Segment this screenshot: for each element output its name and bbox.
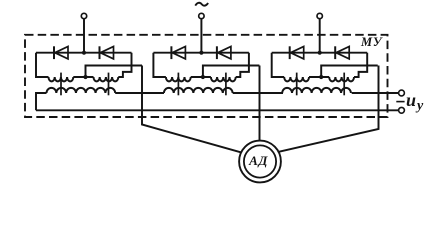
wire: control link 2-3 — [233, 92, 283, 94]
wire: left branch section 2 — [153, 53, 166, 77]
node: supply junction B — [199, 51, 203, 55]
diode VD6 — [335, 46, 349, 59]
node: center tap section 2 — [201, 75, 205, 79]
core 2 — [108, 73, 110, 96]
working winding w5 — [284, 77, 309, 81]
terminal u_y negative — [399, 107, 405, 113]
node: center tap section 1 — [83, 75, 87, 79]
supply terminal A — [81, 13, 86, 18]
diode VD1 — [54, 46, 68, 59]
wire: diode rail section 2 — [153, 52, 249, 54]
diode VD4 — [217, 46, 231, 59]
motor AD outer circle — [239, 141, 281, 183]
node: center tap section 3 — [319, 75, 323, 79]
wire: output to motor phase A — [142, 66, 242, 153]
diode VD2 — [100, 46, 114, 59]
control winding wy2 — [164, 88, 233, 93]
wire: output link section 3 — [321, 66, 378, 78]
supply terminal C — [317, 13, 322, 18]
wire: output link section 1 — [86, 66, 143, 78]
AC supply tilde label — [195, 3, 208, 6]
wire: terminal B lead — [200, 19, 202, 53]
core 4 — [225, 73, 227, 96]
svg-text:АД: АД — [248, 153, 268, 168]
wire: control winding left leg — [36, 93, 47, 110]
core 6 — [343, 73, 345, 96]
diode VD5 — [290, 46, 304, 59]
wire: winding-to-diode link section 2 — [236, 53, 249, 77]
wire: winding-to-diode link section 1 — [118, 53, 131, 77]
core 5 — [296, 73, 298, 96]
core 3 — [177, 73, 179, 96]
wire: output link section 2 — [203, 66, 260, 78]
wire: control link 1-2 — [115, 92, 164, 94]
terminal u_y positive — [399, 90, 405, 96]
wire: terminal C lead — [319, 19, 321, 53]
working winding w4 — [211, 77, 236, 81]
working winding w6 — [329, 77, 354, 81]
wire: diode rail section 1 — [36, 52, 132, 54]
wire: winding center tap section 2 — [191, 76, 211, 78]
node: supply junction A — [82, 51, 86, 55]
working winding w1 — [49, 77, 74, 81]
wire: left branch section 3 — [272, 53, 285, 77]
wire: diode rail section 3 — [272, 52, 368, 54]
wire: winding-to-diode link section 3 — [354, 53, 367, 77]
control winding wy1 — [47, 88, 116, 93]
svg-text:МУ: МУ — [360, 35, 383, 49]
wire: winding center tap section 1 — [73, 76, 93, 78]
wire: output to motor phase C — [278, 66, 378, 152]
wire: terminal A lead — [83, 19, 85, 53]
diode VD3 — [171, 46, 185, 59]
wire: winding center tap section 3 — [309, 76, 329, 78]
motor AD inner circle — [244, 145, 276, 177]
supply terminal B — [199, 13, 204, 18]
wire: control return (bottom rail) — [36, 109, 398, 111]
working winding w3 — [166, 77, 191, 81]
wire: output to motor phase B — [259, 66, 261, 141]
working winding w2 — [94, 77, 119, 81]
control winding wy3 — [282, 88, 351, 93]
wire: control output lead — [352, 92, 399, 94]
magnetic amplifier block MU dashed frame — [25, 35, 388, 117]
svg-text:uу: uу — [406, 90, 424, 114]
wire: left branch section 1 — [36, 53, 49, 77]
core 1 — [60, 73, 62, 96]
polarity dash — [396, 101, 404, 103]
node: supply junction C — [318, 51, 322, 55]
